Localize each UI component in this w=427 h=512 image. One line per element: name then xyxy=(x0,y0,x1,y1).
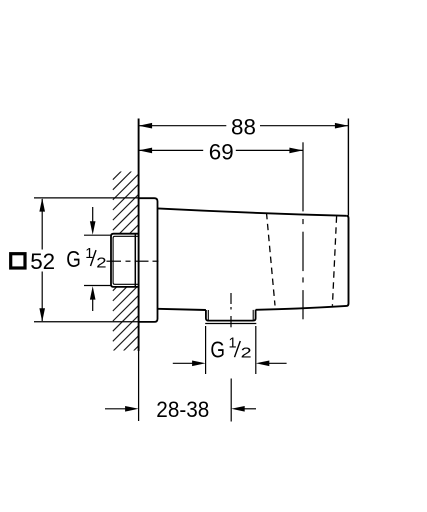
square symbol xyxy=(11,254,25,268)
outlet stub chamfer line xyxy=(205,323,256,325)
outlet stub outer xyxy=(206,310,256,321)
extension line 52 top xyxy=(34,197,139,199)
svg-text:28-38: 28-38 xyxy=(156,397,209,422)
escutcheon flange xyxy=(139,198,158,322)
dim 28-38 arrow right xyxy=(244,408,256,410)
arrow 52 bottom xyxy=(39,308,45,322)
arrow 69 left xyxy=(139,148,153,154)
wall thread end face xyxy=(134,234,136,287)
hidden dashed line B xyxy=(332,216,336,305)
body right edge xyxy=(347,216,349,306)
left centerline dash-dot xyxy=(107,260,159,262)
outlet stub root inner left xyxy=(207,310,209,321)
svg-text:88: 88 xyxy=(231,115,256,140)
svg-text:1: 1 xyxy=(229,335,237,351)
label G1/2 lower xyxy=(210,335,251,362)
body bottom edge left segment xyxy=(158,309,206,310)
dim line 88 xyxy=(139,125,227,127)
G1/2 dim arrow left xyxy=(173,362,193,364)
outlet stub root inner right xyxy=(252,310,254,321)
dim line 52 xyxy=(41,199,43,250)
wall extension line lower xyxy=(138,351,140,421)
outlet centerline dash-dot upper xyxy=(230,293,232,327)
thread arrow top xyxy=(92,207,94,226)
hidden dashed line A xyxy=(267,213,276,306)
cone centerline dash-dot xyxy=(302,208,304,320)
stub extension line left xyxy=(205,326,207,374)
dim line 69 xyxy=(139,149,204,151)
arrow 88 right xyxy=(335,123,349,129)
extension line 52 bottom xyxy=(34,321,139,323)
88 right extension line xyxy=(347,119,349,216)
svg-text:2: 2 xyxy=(96,255,106,271)
stub extension line right xyxy=(255,326,257,374)
wall surface line xyxy=(138,119,140,352)
thread extension line top xyxy=(84,234,112,236)
wall thread outer profile xyxy=(111,234,139,287)
G1/2 dim arrow right xyxy=(269,362,287,364)
outlet centerline lower / 28-38 right extension xyxy=(230,379,232,422)
svg-text:69: 69 xyxy=(209,139,234,164)
thread arrow bottom xyxy=(92,296,94,311)
label G1/2 left xyxy=(66,246,106,272)
arrow 52 top xyxy=(39,198,45,212)
cone centerline extension (69 right ext) xyxy=(302,142,304,207)
svg-text:52: 52 xyxy=(30,249,55,274)
thread extension line bottom xyxy=(84,285,112,287)
body top edge xyxy=(158,208,347,215)
body bottom edge right segment xyxy=(256,306,347,310)
svg-text:G: G xyxy=(66,246,81,272)
wall hatching xyxy=(109,140,143,382)
wall thread root (inner) xyxy=(113,236,139,284)
arrow 69 right xyxy=(289,148,303,154)
svg-text:2: 2 xyxy=(241,346,252,362)
dim 28-38 arrow left xyxy=(105,408,126,410)
svg-text:G: G xyxy=(210,337,225,363)
arrow 88 left xyxy=(139,123,153,129)
